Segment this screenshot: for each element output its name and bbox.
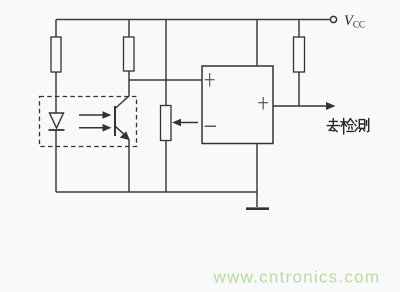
wire bottom rail: [56, 191, 257, 193]
wire R1 bottom to LED: [55, 72, 57, 113]
wire collector of phototransistor to node A: [115, 80, 129, 109]
optocoupler dashed box: [40, 97, 137, 147]
resistor R3: [294, 37, 305, 72]
wire R2 top: [128, 20, 130, 38]
output arrow: [273, 102, 336, 110]
phototransistor Q1: [115, 106, 130, 140]
wire Vcc to potentiometer top: [165, 20, 167, 106]
light arrow 2: [79, 124, 112, 132]
wire R3 top: [298, 20, 300, 38]
light arrow 1: [79, 111, 112, 119]
resistor R1: [51, 37, 61, 72]
terminal Vcc: [330, 16, 336, 22]
glyph 测: [355, 119, 369, 132]
op-amp - input label: [205, 125, 217, 127]
potentiometer wiper arrow: [172, 119, 198, 127]
wire R1 top: [55, 20, 57, 38]
op-amp + input label: [205, 73, 215, 87]
svg-text:www.cntronics.com: www.cntronics.com: [213, 268, 381, 287]
resistor R2: [124, 37, 135, 71]
wire node A to op-amp + input: [129, 79, 202, 81]
glyph 去: [327, 119, 339, 132]
ground: [246, 207, 269, 210]
LED diode: [49, 113, 65, 130]
op-amp output + label: [258, 97, 268, 110]
label 去检测 (drawn glyphs): [327, 118, 368, 134]
potentiometer RP: [161, 106, 172, 141]
wire emitter of phototransistor to bottom rail: [128, 139, 130, 192]
wire potentiometer bottom to bottom rail: [165, 141, 167, 193]
wire R3 bottom to output: [298, 72, 300, 106]
glyph 检: [341, 118, 354, 134]
wire R2 bottom to node A: [128, 71, 130, 80]
wire LED cathode down to bottom rail: [55, 130, 57, 192]
wire Vcc down to op-amp top: [256, 20, 258, 67]
op-amp U1: [202, 66, 273, 144]
wire op-amp bottom to ground: [256, 144, 258, 208]
wire top rail: [56, 19, 330, 21]
